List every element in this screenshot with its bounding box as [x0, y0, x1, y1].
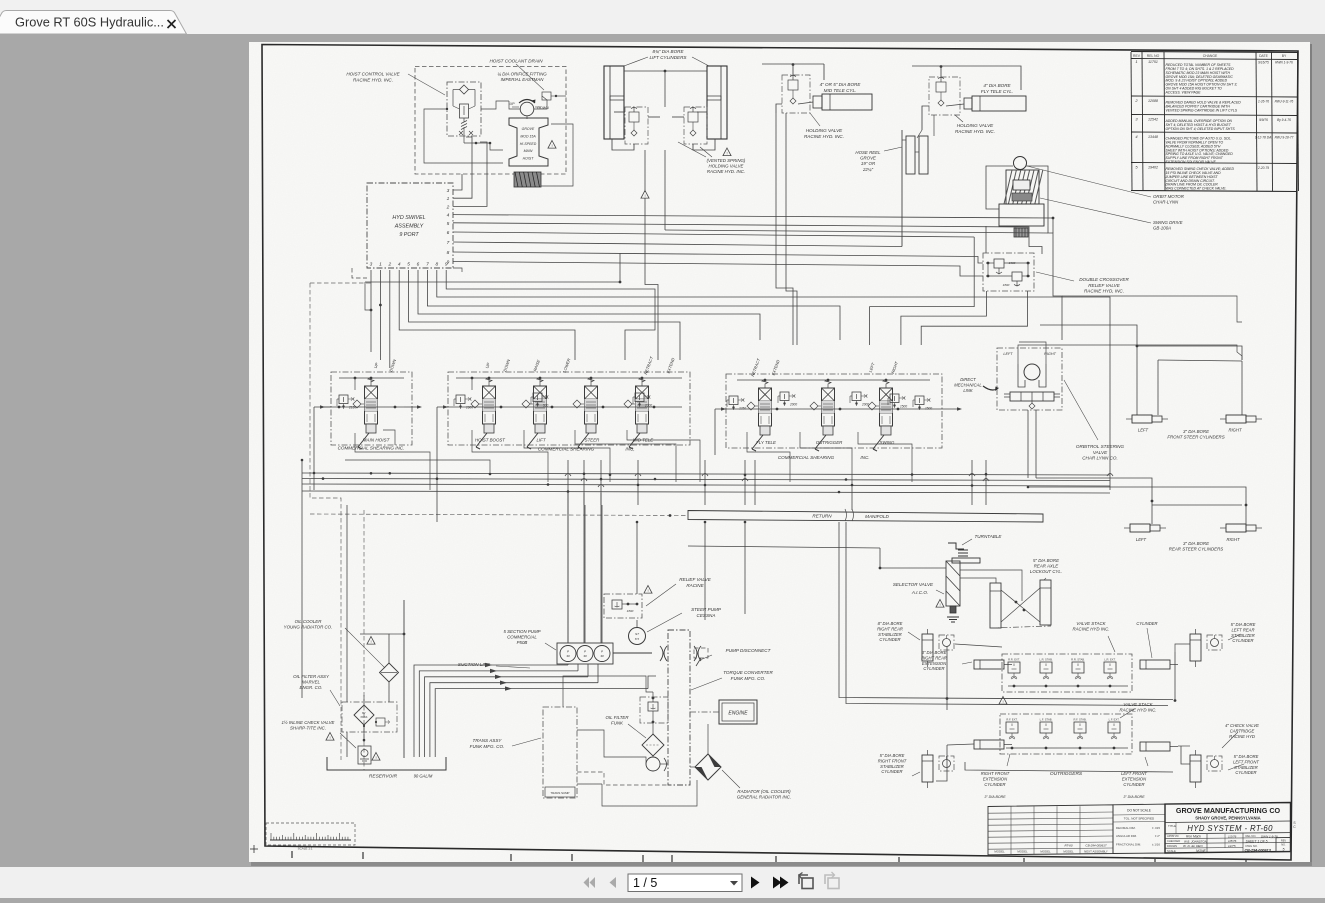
svg-text:FUNK MFG. CO.: FUNK MFG. CO.: [470, 744, 505, 749]
svg-text:OPTION ON SHT 4; DELETED INPUT: OPTION ON SHT 4; DELETED INPUT SHTS: [1166, 127, 1236, 131]
svg-text:COMMERCIAL SHEARING INC.: COMMERCIAL SHEARING INC.: [338, 446, 405, 451]
svg-text:PUMP DISCONNECT: PUMP DISCONNECT: [726, 648, 772, 653]
suction line 5: [435, 689, 648, 757]
first page button (disabled): [584, 877, 590, 888]
svg-text:P: P: [584, 650, 586, 654]
relief valve symbol 1500: [915, 396, 924, 405]
svg-text:2000: 2000: [789, 403, 797, 407]
svg-text:RADIATOR (OIL COOLER): RADIATOR (OIL COOLER): [737, 789, 791, 794]
selector feed wire: [880, 548, 946, 568]
svg-text:HOLDING VALVE: HOLDING VALVE: [806, 128, 843, 133]
valve stack upper: [1002, 654, 1132, 692]
swing supply loop: [986, 166, 1013, 209]
svg-text:HOIST: HOIST: [523, 157, 535, 161]
svg-text:STABILIZER: STABILIZER: [1234, 765, 1258, 770]
svg-text:VALVE STACK: VALVE STACK: [1123, 702, 1153, 707]
spool FLY TELE: [759, 388, 772, 426]
extension cylinder right front: [974, 740, 1004, 749]
svg-text:1900: 1900: [466, 406, 473, 410]
relief valve symbol 500: [533, 393, 542, 402]
relief valve symbol 1900: [456, 395, 465, 404]
lower group connections: [947, 744, 974, 745]
svg-text:1 / 5: 1 / 5: [633, 876, 657, 890]
svg-text:22¼": 22¼": [862, 167, 874, 172]
svg-text:CHANGE: CHANGE: [1203, 54, 1218, 58]
svg-text:HI-SPEED: HI-SPEED: [520, 142, 537, 146]
svg-text:ENGINE: ENGINE: [728, 711, 748, 717]
svg-text:CHAR LYNN CO.: CHAR LYNN CO.: [1082, 456, 1118, 461]
svg-text:P: P: [567, 650, 569, 654]
svg-text:REAR AXLE: REAR AXLE: [1034, 564, 1059, 569]
svg-text:2: 2: [387, 262, 391, 268]
lockout cyl right: [1040, 580, 1051, 625]
svg-text:LEFT FRONT: LEFT FRONT: [1233, 759, 1259, 764]
oil cooler circuit: [360, 634, 389, 663]
svg-text:4: 4: [398, 262, 401, 268]
svg-text:RT-60: RT-60: [1064, 844, 1072, 848]
svg-text:R.F. EXT.: R.F. EXT.: [1006, 718, 1017, 722]
wire down to bank1: [389, 300, 391, 368]
outrigger feed line 1: [839, 522, 1173, 700]
orifice symbol: [542, 92, 551, 100]
svg-text:CYLINDER: CYLINDER: [984, 782, 1005, 787]
svg-text:¼ DIA ORIFICE FITTING: ¼ DIA ORIFICE FITTING: [497, 72, 547, 77]
hoist control valve symbol: [447, 82, 481, 136]
svg-text:1500: 1500: [900, 405, 907, 409]
steer pump shaft: [636, 620, 638, 627]
svg-text:1/8/76: 1/8/76: [1228, 839, 1237, 843]
manifold drop wires: [704, 522, 706, 620]
drawing sheet border frame: [262, 45, 1298, 861]
hoist assembly dashed enclosure: [415, 67, 566, 175]
bank3 top rail: [737, 379, 930, 381]
relief valve symbol 1500: [890, 394, 899, 403]
svg-text:RACINE HYD. INC.: RACINE HYD. INC.: [955, 129, 995, 134]
svg-text:REV: REV: [1133, 54, 1141, 58]
swing gearbox body: [999, 204, 1044, 226]
trans connection wires: [563, 676, 653, 707]
bus line 3: [302, 484, 1110, 486]
wire port5b: [409, 270, 680, 360]
fly tele cylinder: [972, 96, 1026, 111]
svg-text:TITLE: TITLE: [1168, 824, 1176, 828]
svg-text:RACINE HYD. INC.: RACINE HYD. INC.: [353, 77, 393, 82]
svg-text:RACINE HYD: RACINE HYD: [1229, 734, 1255, 739]
svg-text:MARVEL: MARVEL: [302, 680, 321, 685]
left riser upper group: [946, 646, 948, 710]
bus crossing humps verticals: [567, 460, 569, 505]
steering top wires: [1018, 345, 1242, 364]
suction line 2: [419, 671, 578, 757]
svg-text:OUTRIGGERS: OUTRIGGERS: [1050, 771, 1083, 777]
wire fly tele extend: [786, 113, 797, 345]
wire port6b: [418, 270, 760, 340]
steering hand pump circle: [1024, 364, 1040, 380]
svg-text:DECIMAL DIM.: DECIMAL DIM.: [1116, 826, 1136, 830]
svg-text:3: 3: [370, 262, 373, 268]
main hoist spool: [365, 386, 378, 424]
svg-text:MAIN: MAIN: [524, 149, 533, 153]
svg-text:TRANS ASSY: TRANS ASSY: [473, 738, 503, 743]
scale ruler: [266, 823, 355, 845]
svg-text:DWN 1-9-76: DWN 1-9-76: [1261, 835, 1278, 839]
svg-text:GENERAL RADIATOR INC.: GENERAL RADIATOR INC.: [737, 795, 791, 800]
bank1 entry arrows: [314, 406, 404, 408]
svg-text:RACINE HYD INC.: RACINE HYD INC.: [1119, 708, 1156, 713]
svg-text:5" DIA BORE: 5" DIA BORE: [880, 753, 905, 758]
svg-text:Grove RT 60S Hydraulic...: Grove RT 60S Hydraulic...: [15, 15, 164, 30]
svg-text:OIL COOLER: OIL COOLER: [295, 619, 323, 624]
spool OUTRIGGER: [822, 388, 835, 426]
svg-text:9: 9: [445, 262, 448, 268]
pump disconnect symbol: [694, 648, 708, 658]
tab close button: [168, 20, 176, 28]
svg-text:1½ INLINE CHECK VALVE: 1½ INLINE CHECK VALVE: [282, 720, 335, 725]
svg-text:MODEL: MODEL: [1063, 850, 1074, 854]
svg-text:CYLINDER: CYLINDER: [1235, 770, 1256, 775]
svg-text:!: !: [726, 151, 727, 156]
holding valve left (lift): [625, 107, 648, 144]
main left vertical line: [403, 600, 405, 758]
svg-text:CARTRIDGE: CARTRIDGE: [1230, 728, 1255, 733]
svg-text:HOIST CONTROL VALVE: HOIST CONTROL VALVE: [346, 72, 400, 77]
wire swing right: [901, 291, 987, 345]
svg-text:!: !: [647, 588, 648, 593]
svg-text:DO NOT SCALE: DO NOT SCALE: [1127, 809, 1151, 813]
lift group lower wires: [612, 139, 634, 150]
suction line 1: [414, 665, 568, 757]
lift cyl top connection: [614, 111, 625, 113]
svg-text:COMMERCIAL SHEARING: COMMERCIAL SHEARING: [538, 447, 595, 452]
svg-text:8¾" DIA BORE: 8¾" DIA BORE: [652, 49, 684, 54]
bus line 2: [302, 479, 1110, 481]
svg-text:SCALE 1:1: SCALE 1:1: [298, 847, 313, 851]
wire port4b: [399, 270, 575, 360]
wire port5 to crossover: [453, 223, 1042, 254]
svg-text:OIL FILTER: OIL FILTER: [605, 715, 629, 720]
last page button: [773, 877, 782, 889]
relief valve symbol 2150: [339, 395, 348, 404]
svg-text:UP: UP: [510, 102, 516, 106]
hump crossing marks: [565, 474, 571, 477]
svg-text:1800: 1800: [627, 609, 634, 613]
svg-text:8.5: 8.5: [635, 637, 640, 641]
spool MID TELE: [636, 386, 649, 424]
svg-text:VALVE: VALVE: [1093, 450, 1108, 455]
svg-text:EXTENSION: EXTENSION: [922, 661, 947, 666]
svg-text:12/75: 12/75: [1228, 844, 1236, 848]
svg-text:MAIN HOIST: MAIN HOIST: [363, 438, 391, 443]
svg-text:RIGHT: RIGHT: [1226, 537, 1239, 542]
svg-text:LEFT REAR: LEFT REAR: [1231, 627, 1254, 632]
svg-text:ORBITROL STEERING: ORBITROL STEERING: [1076, 444, 1125, 449]
svg-text:A.I.C.O.: A.I.C.O.: [911, 590, 928, 595]
svg-text:2000: 2000: [861, 403, 869, 407]
stabilizer cylinder left front: [1190, 755, 1201, 782]
svg-text:6: 6: [417, 262, 420, 268]
front steer cylinder right: [1226, 415, 1246, 423]
reservoir tank outline: [327, 757, 446, 770]
5 section pump: [557, 643, 613, 664]
svg-text:1800: 1800: [1003, 283, 1010, 287]
svg-text:5" DIA BORE: 5" DIA BORE: [1234, 754, 1259, 759]
dashed boundary vertical 2: [363, 510, 365, 770]
svg-text:12088: 12088: [1148, 99, 1158, 103]
svg-text:!: !: [1002, 699, 1003, 704]
svg-text:RACINE HYD, INC.: RACINE HYD, INC.: [1084, 289, 1124, 294]
svg-text:19402: 19402: [1148, 166, 1158, 170]
pump shaft to torque converter: [613, 652, 652, 654]
long horizontals mid-page (hoist return etc): [365, 282, 371, 310]
spool STEER: [585, 386, 598, 424]
svg-text:RIGHT REAR: RIGHT REAR: [921, 655, 947, 660]
svg-text:STABILIZER: STABILIZER: [878, 632, 902, 637]
svg-text:REV: REV: [1281, 839, 1287, 843]
single page view icon: [799, 873, 813, 889]
svg-text:9/9/76: 9/9/76: [1259, 118, 1268, 122]
wire swing left: [870, 237, 975, 345]
svg-text:5 SECTION PUMP: 5 SECTION PUMP: [503, 629, 540, 634]
svg-text:3" DIA BORE: 3" DIA BORE: [1183, 541, 1209, 546]
svg-text:LIFT: LIFT: [536, 438, 545, 443]
svg-text:FUNK: FUNK: [611, 721, 624, 726]
svg-text:CYLINDER: CYLINDER: [879, 637, 900, 642]
wire to left front steer cyl: [1040, 325, 1137, 415]
svg-text:4" DIA BORE: 4" DIA BORE: [983, 83, 1011, 88]
svg-text:4: 4: [447, 213, 450, 219]
svg-text:MODEL: MODEL: [1040, 850, 1051, 854]
bank2 top rail: [456, 377, 682, 379]
svg-text:9 PORT: 9 PORT: [399, 232, 419, 238]
svg-text:MECHANICAL: MECHANICAL: [954, 382, 982, 387]
wire port7 to hose reel: [453, 242, 902, 247]
svg-text:13448: 13448: [1148, 135, 1158, 139]
long drop wires from tele valves: [901, 130, 903, 247]
svg-text:CYLINDER: CYLINDER: [1136, 621, 1157, 626]
svg-text:30: 30: [583, 654, 587, 658]
extension cylinder left front: [1140, 742, 1170, 751]
svg-text:SHADY GROVE, PENNSYLVANIA: SHADY GROVE, PENNSYLVANIA: [1195, 816, 1260, 821]
small charge pump circle: [646, 757, 660, 771]
stabilizer cylinder left rear 5in: [1190, 634, 1201, 661]
svg-text:TRANS SUMP: TRANS SUMP: [551, 791, 570, 795]
wire port4 to swing: [453, 215, 1053, 233]
svg-text:± 1/16: ± 1/16: [1152, 843, 1160, 847]
spool LIFT: [534, 386, 547, 424]
svg-text:NO.: NO.: [1281, 842, 1286, 846]
oil filter assy: [342, 702, 397, 732]
svg-text:RIGHT FRONT: RIGHT FRONT: [981, 771, 1010, 776]
revision table: [1131, 52, 1298, 53]
wire from bank3 to outriggers: [851, 482, 853, 510]
left bus vertical: [301, 460, 303, 698]
svg-text:HOSE REEL: HOSE REEL: [855, 150, 881, 155]
bank3 entry line: [715, 408, 930, 410]
svg-text:OUTRIGGER: OUTRIGGER: [816, 440, 843, 445]
svg-text:OIL FILTER ASSY: OIL FILTER ASSY: [293, 674, 330, 679]
svg-text:EXTENSION SOLENOID VALVE: EXTENSION SOLENOID VALVE: [1166, 160, 1217, 164]
svg-text:WAS CONNECTED AT CHECK VALVE.: WAS CONNECTED AT CHECK VALVE.: [1166, 187, 1227, 191]
svg-text:GROVE: GROVE: [522, 127, 535, 131]
radiator diamond: [695, 754, 721, 780]
mid tele wiring: [792, 64, 794, 75]
up/down gauge circle: [520, 102, 534, 116]
svg-text:W. D. EL DEN: W. D. EL DEN: [1183, 844, 1203, 848]
svg-text:7: 7: [447, 240, 450, 246]
svg-text:3: 3: [447, 188, 450, 194]
extension cylinder right rear: [974, 660, 1004, 669]
svg-text:SHARP-TITE INC.: SHARP-TITE INC.: [290, 726, 326, 731]
oil filter funk diamond: [642, 734, 664, 756]
rear steer cylinder right: [1226, 524, 1246, 532]
svg-text:L.F. STAB.: L.F. STAB.: [1040, 718, 1053, 722]
svg-text:LINK: LINK: [963, 388, 973, 393]
facing page view icon (disabled): [825, 872, 839, 889]
svg-text:CB-294-000613: CB-294-000613: [1245, 849, 1272, 853]
svg-text:9/16/75: 9/16/75: [1258, 60, 1269, 64]
svg-text:2250: 2250: [738, 407, 746, 411]
svg-text:DATE: DATE: [1259, 54, 1269, 58]
upper group connections: [955, 644, 1002, 647]
svg-text:RELIEF VALVE: RELIEF VALVE: [679, 577, 712, 582]
svg-text:1/2/76: 1/2/76: [1228, 834, 1237, 838]
svg-text:MODEL: MODEL: [994, 850, 1005, 854]
svg-text:LIFT CYLINDERS: LIFT CYLINDERS: [649, 55, 687, 60]
next page button: [751, 877, 760, 889]
swivel right-side port lines: [453, 174, 462, 190]
svg-text:9-12-78 DAI: 9-12-78 DAI: [1255, 135, 1272, 139]
svg-text:PASS: PASS: [361, 715, 368, 719]
svg-text:5: 5: [447, 221, 450, 227]
svg-text:RWN 1-9-76: RWN 1-9-76: [1275, 60, 1293, 64]
svg-text:CYLINDER: CYLINDER: [1123, 782, 1144, 787]
brake block (hatched): [514, 172, 541, 187]
svg-text:HOLDING VALVE: HOLDING VALVE: [709, 164, 744, 169]
svg-text:RACINE HYD INC.: RACINE HYD INC.: [1072, 627, 1109, 632]
svg-text:LEFT: LEFT: [1136, 537, 1147, 542]
oil cooler diamond: [380, 663, 399, 682]
radiator loop wires: [690, 766, 695, 768]
wire to swing: [665, 230, 1048, 233]
svg-text:30: 30: [566, 654, 570, 658]
svg-text:W.B. JOHNSTON: W.B. JOHNSTON: [1184, 839, 1208, 843]
wire to right front steer cyl: [1241, 361, 1243, 415]
mid tele cylinder: [822, 94, 872, 110]
svg-text:REL NO.: REL NO.: [1246, 834, 1257, 838]
svg-text:ACCESS. VIEW: ACCESS. VIEW PAGE: [1165, 91, 1202, 95]
swing orbit motor circle: [1014, 157, 1027, 170]
wire port6 to swing valve: [453, 232, 974, 237]
turntable symbol: [948, 543, 964, 549]
steer pump circle: [629, 628, 646, 645]
hyd swivel assembly box: [367, 183, 453, 268]
svg-text:BY: BY: [362, 711, 366, 715]
right riser upper group: [1174, 652, 1176, 699]
svg-text:4" CHECK VALVE: 4" CHECK VALVE: [1225, 723, 1259, 728]
svg-text:DIRECT: DIRECT: [960, 377, 976, 382]
lockout bowtie linkage: [1001, 590, 1040, 622]
valve bank 1 enclosure: [331, 372, 412, 445]
svg-text:LOCKOUT CYL.: LOCKOUT CYL.: [1030, 569, 1062, 574]
svg-text:COMMERCIAL: COMMERCIAL: [507, 635, 537, 640]
svg-text:CHECKED: CHECKED: [1167, 839, 1180, 843]
svg-text:VALVE STACK: VALVE STACK: [1076, 621, 1106, 626]
wire port8: [453, 252, 983, 263]
svg-text:RETURN: RETURN: [812, 514, 832, 519]
svg-text:1-26-76: 1-26-76: [1258, 99, 1269, 103]
pump pressure drop lines: [567, 505, 569, 643]
svg-text:3" DIA BORE: 3" DIA BORE: [1183, 429, 1209, 434]
svg-text:HYD SYSTEM - RT-60: HYD SYSTEM - RT-60: [1187, 824, 1273, 833]
selector valve: [946, 561, 960, 606]
svg-text:RWJ-9-11-76: RWJ-9-11-76: [1275, 99, 1294, 103]
svg-text:1: 1: [1135, 59, 1137, 64]
trans assy box: [543, 707, 577, 798]
hose reel: [906, 136, 915, 174]
trans sump box: [545, 787, 575, 797]
svg-text:FRONT STEER CYLINDERS: FRONT STEER CYLINDERS: [1167, 435, 1224, 440]
svg-text:BY: BY: [1282, 54, 1287, 58]
title block: [988, 805, 1113, 855]
svg-text:ORBIT MOTOR: ORBIT MOTOR: [1153, 194, 1185, 199]
outrigger bottom feed: [965, 762, 1173, 772]
svg-text:1500: 1500: [925, 407, 932, 411]
svg-text:TOL. NOT SPECIFIED: TOL. NOT SPECIFIED: [1124, 817, 1155, 821]
svg-text:NEXT ASSEMBLY: NEXT ASSEMBLY: [1084, 850, 1108, 854]
svg-text:2-20-79: 2-20-79: [1257, 166, 1269, 170]
suction line 3: [425, 677, 588, 757]
svg-text:FLY TELE CYL.: FLY TELE CYL.: [981, 89, 1013, 94]
svg-text:By 9-4-76: By 9-4-76: [1277, 118, 1291, 122]
svg-text:8: 8: [435, 262, 438, 268]
svg-text:L.R. EXT.: L.R. EXT.: [1104, 658, 1116, 662]
valve stack lower: [1000, 714, 1132, 754]
svg-text:INC.: INC.: [860, 455, 869, 460]
warning triangle near winch: [548, 141, 556, 149]
svg-text:11751: 11751: [1148, 60, 1158, 64]
svg-text:YOUNG RADIATOR CO.: YOUNG RADIATOR CO.: [284, 625, 333, 630]
wire hoist drain: [365, 253, 620, 282]
svg-text:NONE: NONE: [1196, 849, 1207, 853]
orbitrol steering valve box: [997, 348, 1062, 410]
svg-text:MOD 15A: MOD 15A: [520, 134, 536, 138]
svg-text:DRAWN: DRAWN: [1167, 844, 1177, 848]
svg-text:CESSNA: CESSNA: [697, 613, 716, 618]
fly tele wiring: [940, 66, 942, 77]
tab bar: [0, 0, 1325, 34]
svg-text:HOIST COOLANT DRAIN: HOIST COOLANT DRAIN: [489, 59, 543, 64]
steer pump line up: [636, 522, 638, 594]
svg-text:L.F. EXT.: L.F. EXT.: [1109, 718, 1120, 722]
bus line 4: [302, 491, 1110, 493]
front steer cylinder left: [1132, 415, 1152, 423]
svg-text:8" DIA BORE: 8" DIA BORE: [878, 621, 903, 626]
svg-text:3" DIA BORE: 3" DIA BORE: [922, 650, 947, 655]
svg-text:DWG NO.: DWG NO.: [1246, 844, 1258, 848]
svg-text:(VENTED SPRING): (VENTED SPRING): [707, 158, 746, 163]
return manifold: [688, 511, 1043, 523]
svg-text:!: !: [329, 735, 330, 740]
svg-text:FUNK MFG. CO.: FUNK MFG. CO.: [731, 676, 766, 681]
svg-text:6: 6: [447, 230, 450, 236]
svg-text:TORQUE CONVERTER: TORQUE CONVERTER: [723, 670, 773, 675]
steering spool row: [1010, 392, 1054, 401]
svg-text:5: 5: [1283, 848, 1285, 852]
svg-text:COMMERCIAL SHEARING: COMMERCIAL SHEARING: [778, 455, 835, 460]
svg-text:RWJ 9-28-77: RWJ 9-28-77: [1275, 135, 1294, 139]
extension cylinder left rear: [1140, 660, 1170, 669]
page number combobox: [628, 874, 742, 892]
